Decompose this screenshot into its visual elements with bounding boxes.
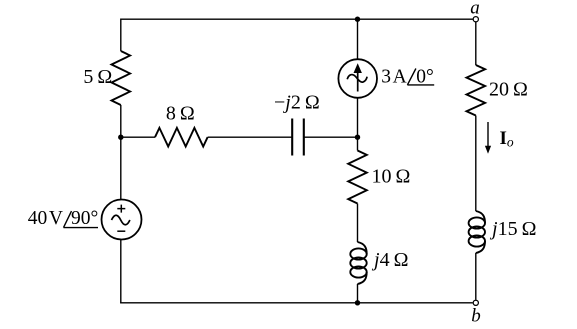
svg-text:−j2 Ω: −j2 Ω [274, 92, 320, 114]
current arrow I_o (pointing down) [485, 122, 491, 154]
junction dot top center node [355, 17, 360, 22]
wire left bottom segment (voltage source bottom to bottom rail) [120, 239, 122, 302]
wire right branch (20ohm to j15 inductor) [475, 116, 477, 212]
inductor j15 Ohm (vertical, right branch) [469, 211, 485, 253]
terminal node a (open circle) [473, 17, 478, 22]
wire bottom horizontal [120, 302, 473, 304]
wire center branch (top rail to current source) [357, 19, 359, 59]
svg-text:a: a [470, 0, 480, 18]
capacitor -j2 Ohm [292, 119, 304, 156]
svg-text:10 Ω: 10 Ω [372, 166, 411, 188]
resistor 20 Ohm (vertical, right branch) [467, 65, 486, 116]
svg-text:b: b [471, 306, 481, 325]
resistor 8 Ohm (horizontal, middle wire) [155, 128, 208, 147]
wire middle horizontal left (junction to 8ohm) [121, 136, 155, 138]
svg-text:40 V: 40 V [28, 208, 63, 229]
inductor j4 Ohm (vertical, center branch) [350, 242, 366, 284]
resistor 10 Ohm (vertical, center branch) [348, 151, 367, 204]
junction dot bottom center node [355, 300, 360, 305]
wire center branch (junction to 10ohm) [357, 137, 359, 150]
svg-text:3 A: 3 A [381, 66, 406, 87]
wire middle horizontal (8ohm to capacitor) [208, 136, 292, 138]
wire left top segment [120, 19, 122, 52]
junction dot center middle node [355, 135, 360, 140]
label 3 A angle 0 (current source value) [381, 66, 434, 87]
svg-text:j15 Ω: j15 Ω [489, 218, 536, 240]
wire center branch (10ohm to j4 inductor) [357, 204, 359, 243]
svg-text:j4 Ω: j4 Ω [371, 249, 408, 271]
wire top horizontal [121, 18, 473, 20]
voltage source 40V angle 90 (AC source circle with + sine -) [102, 200, 142, 240]
resistor 5 Ohm (vertical, left branch) [112, 51, 131, 105]
wire center branch (j4 inductor to bottom rail) [357, 284, 359, 303]
svg-text:8 Ω: 8 Ω [166, 102, 195, 124]
current source 3A angle 0 (AC current source: circle, up arrow, sine) [338, 59, 377, 98]
svg-text:90°: 90° [71, 208, 98, 229]
terminal node b (open circle) [473, 300, 478, 305]
wire right branch (j15 inductor to node b) [475, 253, 477, 300]
label 40 V angle 90 (voltage source value) [28, 208, 99, 229]
wire left middle segment (5ohm bottom to voltage source top) [120, 105, 122, 200]
wire right branch (node a to 20ohm) [475, 22, 477, 65]
svg-text:0°: 0° [416, 66, 434, 87]
svg-text:20 Ω: 20 Ω [489, 78, 528, 100]
junction dot left middle node [118, 135, 123, 140]
wire middle horizontal (capacitor to center junction) [304, 136, 358, 138]
svg-text:5 Ω: 5 Ω [83, 66, 112, 88]
wire center branch (current source to middle junction) [357, 98, 359, 137]
